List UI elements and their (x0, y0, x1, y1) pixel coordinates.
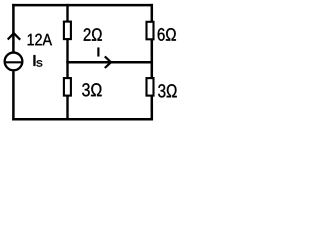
arrow head current I direction (105, 56, 111, 68)
label 6ohm (158, 28, 176, 41)
wire middle branch upper (top wire to 2ohm resistor) (66, 4, 68, 22)
label Is source name (34, 55, 36, 66)
resistor 2ohm body (64, 22, 71, 39)
label 2ohm (84, 28, 102, 40)
resistor 3ohm right body (147, 78, 154, 96)
wire left branch upper segment (12, 4, 15, 52)
wire middle horizontal (middle node to right branch) (66, 61, 153, 64)
wire right branch upper (top wire to 6ohm resistor) (151, 4, 154, 22)
wire top node (left, middle and right branches) (12, 4, 153, 7)
wire middle branch center (2ohm to middle node and 3ohm) (66, 40, 68, 79)
wire bottom common node (12, 118, 153, 121)
label 12A value of source (28, 34, 52, 46)
label 3ohm left (82, 83, 101, 96)
label Is subscript s (36, 60, 42, 66)
current source IS circle (5, 53, 23, 71)
resistor 6ohm body (147, 22, 154, 40)
current source IS arrow head (8, 33, 21, 40)
resistor 3ohm left body (64, 78, 71, 96)
wire left branch lower segment (12, 71, 15, 120)
wire right branch center (6ohm to middle node and 3ohm) (151, 40, 154, 78)
label 3ohm right (158, 84, 177, 97)
wire right branch lower (3ohm to bottom wire) (151, 96, 154, 121)
current source IS bar (5, 61, 22, 63)
label I current (98, 48, 100, 57)
wire middle branch lower (3ohm to bottom wire) (66, 96, 68, 121)
